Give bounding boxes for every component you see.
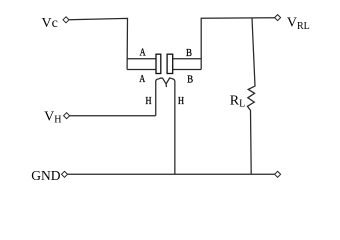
svg-text:B: B (187, 74, 193, 86)
svg-text:H: H (146, 95, 152, 107)
svg-text:B: B (186, 47, 192, 59)
svg-text:H: H (178, 95, 184, 107)
svg-text:A: A (140, 47, 146, 59)
svg-text:GND: GND (31, 168, 60, 183)
svg-text:A: A (139, 73, 145, 85)
svg-text:Vc: Vc (42, 16, 58, 31)
